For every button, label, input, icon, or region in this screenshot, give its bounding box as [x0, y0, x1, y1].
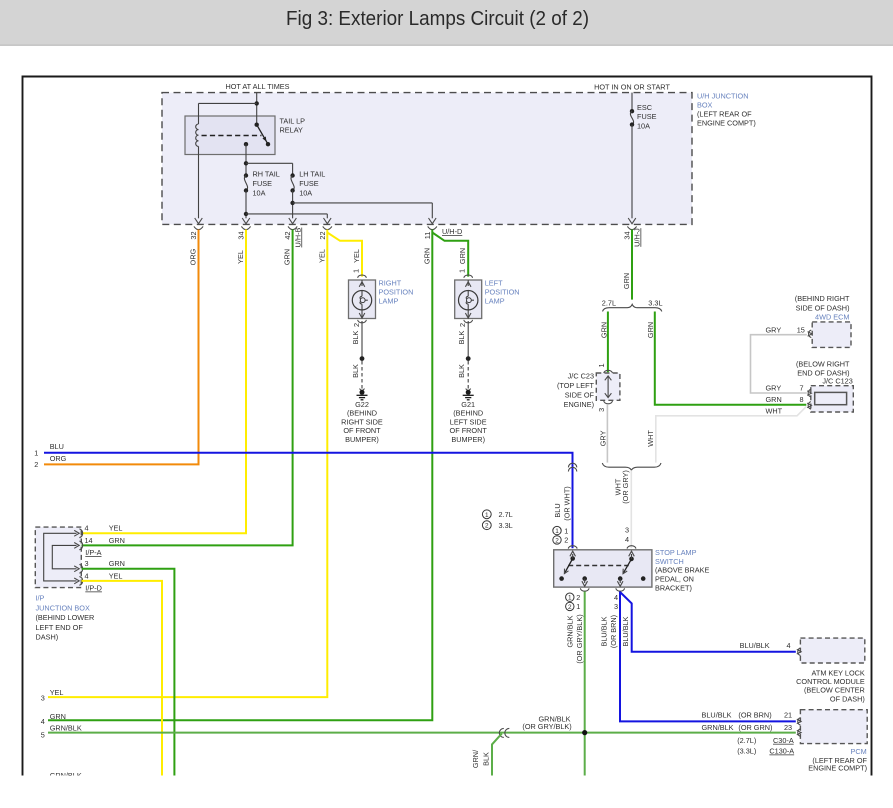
svg-text:ORG: ORG — [50, 454, 67, 463]
wire GRN 11: branch to left position lamp — [432, 233, 468, 277]
wire WHT (OR GRY) to stop lamp switch — [613, 470, 631, 548]
svg-text:4WD ECM: 4WD ECM — [815, 312, 849, 321]
pin 34 label — [237, 231, 246, 239]
svg-text:YEL: YEL — [109, 524, 123, 533]
svg-text:34: 34 — [237, 231, 246, 239]
svg-text:GRN: GRN — [109, 536, 125, 545]
svg-text:1: 1 — [576, 602, 580, 611]
wire BLK (dashed) to ground — [457, 361, 468, 389]
svg-text:SIDE OF: SIDE OF — [565, 390, 595, 399]
wire BLK from lamp — [351, 321, 362, 359]
svg-text:(OR WHT): (OR WHT) — [563, 486, 572, 520]
wire YEL 22: branch to right position lamp — [327, 233, 362, 277]
svg-text:ESC: ESC — [637, 103, 652, 112]
ATM key lock control module — [740, 638, 865, 703]
svg-text:2: 2 — [564, 536, 568, 545]
connector: exit arrow at dashed border x=292.6 — [288, 218, 297, 230]
svg-text:BUMPER): BUMPER) — [451, 435, 485, 444]
wire: relay output to fuse bus — [244, 144, 293, 175]
svg-text:3: 3 — [41, 694, 45, 703]
connector: C123 pin 8 — [766, 395, 812, 409]
wire GRN 11: main vertical down to row 4 — [48, 230, 432, 721]
pin 34 label — [623, 231, 632, 239]
net label I/P-D — [85, 584, 102, 593]
svg-text:U/H-J: U/H-J — [633, 228, 642, 247]
svg-text:3.3L: 3.3L — [648, 298, 662, 307]
svg-text:U/H-B: U/H-B — [293, 227, 302, 247]
svg-text:GRY: GRY — [599, 430, 608, 446]
svg-text:32: 32 — [189, 231, 198, 239]
svg-text:BLK: BLK — [481, 752, 490, 766]
svg-text:Fig 3: Exterior Lamps Circuit: Fig 3: Exterior Lamps Circuit (2 of 2) — [286, 7, 589, 30]
wire BLU/BLK (OR BRN) from switch to PCM 21 — [600, 592, 796, 722]
svg-text:(2.7L): (2.7L) — [737, 736, 756, 745]
connector: exit arrow at dashed border x=327.3 — [323, 218, 332, 230]
svg-text:GRN/: GRN/ — [471, 749, 480, 768]
U/H junction box (dashed) — [162, 93, 692, 225]
svg-text:HOT AT ALL TIMES: HOT AT ALL TIMES — [225, 82, 289, 91]
svg-text:BLK: BLK — [351, 330, 360, 344]
wire BLK (dashed) to ground — [351, 361, 362, 389]
fuse: ESC FUSE 10A — [630, 93, 657, 219]
svg-text:2: 2 — [485, 523, 489, 530]
svg-text:SIDE OF DASH): SIDE OF DASH) — [796, 303, 850, 312]
wire label GRN/BLK clipped at bottom — [50, 771, 82, 780]
pin 42 label — [283, 231, 292, 239]
svg-text:GRN: GRN — [766, 395, 782, 404]
svg-text:G21: G21 — [461, 400, 475, 409]
wire: RH fuse output and branch to pin 22 — [244, 191, 327, 219]
pin 2 label — [458, 323, 467, 327]
pin 22 label — [318, 231, 327, 239]
connector: ECM pin 15 — [766, 325, 812, 337]
fuse: LH TAIL FUSE 10A — [290, 170, 325, 198]
svg-text:1: 1 — [34, 449, 38, 458]
wire YEL row 3 labels — [41, 688, 64, 703]
net label U/H-D — [442, 227, 462, 236]
svg-text:BLK: BLK — [351, 364, 360, 378]
net label U/H-J — [633, 228, 642, 247]
I/P pin 14 (GRN) — [74, 536, 125, 550]
engine split brace 2.7L / 3.3L — [602, 298, 663, 311]
svg-text:8: 8 — [800, 395, 804, 404]
svg-text:LAMP: LAMP — [485, 297, 505, 306]
svg-text:LH TAIL: LH TAIL — [299, 170, 325, 179]
svg-text:(BEHIND: (BEHIND — [347, 409, 377, 418]
svg-text:(3.3L): (3.3L) — [737, 747, 756, 756]
net label U/H-B — [293, 227, 302, 247]
wire color label YEL — [317, 249, 326, 263]
I/P pin 3 (GRN) — [74, 559, 125, 573]
svg-text:(OR GRY/BLK): (OR GRY/BLK) — [522, 722, 571, 731]
svg-text:BLK: BLK — [457, 330, 466, 344]
connector: inline on BLU wire — [568, 463, 576, 471]
svg-text:2: 2 — [555, 537, 559, 544]
svg-text:LEFT: LEFT — [485, 279, 503, 288]
svg-text:U/H-D: U/H-D — [442, 227, 462, 236]
svg-text:GRN/BLK: GRN/BLK — [50, 771, 82, 780]
stop lamp switch STOP LAMP SWITCH — [554, 546, 710, 593]
svg-text:(OR GRY): (OR GRY) — [621, 470, 630, 504]
svg-text:21: 21 — [784, 711, 792, 720]
net label HOT AT ALL TIMES — [225, 82, 289, 91]
svg-text:1: 1 — [352, 269, 361, 273]
svg-text:GRN/BLK: GRN/BLK — [702, 723, 734, 732]
svg-text:3: 3 — [85, 559, 89, 568]
wire WHT from C123 pin 8 — [646, 407, 806, 463]
svg-text:GRN: GRN — [422, 248, 431, 264]
fuse: RH TAIL FUSE 10A — [244, 170, 280, 198]
svg-text:I/P: I/P — [36, 594, 45, 603]
svg-text:(OR BRN): (OR BRN) — [609, 615, 618, 648]
wire color label GRN — [283, 249, 292, 265]
svg-text:2.7L: 2.7L — [499, 510, 513, 519]
svg-text:BLU: BLU — [50, 442, 64, 451]
svg-text:ENGINE COMPT): ENGINE COMPT) — [697, 119, 756, 128]
wire color label ORG — [189, 248, 198, 265]
wire GRN 34 (ESC / U/H-J) down to engine split — [631, 230, 633, 300]
connector: exit arrow at dashed border x=632 — [627, 218, 636, 230]
wire GRN 2.7L branch to J/C C23 — [600, 312, 609, 373]
svg-text:C130-A: C130-A — [769, 747, 794, 756]
node: BLK splice — [360, 356, 365, 361]
svg-text:1: 1 — [564, 526, 568, 535]
lamp LEFT POSITION LAMP — [455, 275, 520, 323]
svg-text:LAMP: LAMP — [379, 297, 399, 306]
svg-text:GRY: GRY — [766, 383, 782, 392]
wire YEL 22: main vertical down to row 3 — [48, 230, 327, 698]
connector: exit arrow at dashed border x=198.5 — [194, 218, 203, 230]
wire ORG 32: down then left to row 2 — [44, 230, 199, 465]
svg-text:BOX: BOX — [697, 101, 713, 110]
wire: feed from HOT AT ALL TIMES into relay — [256, 93, 258, 125]
wire color label YEL — [236, 250, 245, 264]
relay coil — [196, 103, 199, 218]
U/H junction box name label — [697, 92, 756, 128]
pin 2 label — [352, 323, 361, 327]
svg-text:HOT IN ON OR START: HOT IN ON OR START — [594, 83, 670, 92]
wire color label GRN — [422, 248, 431, 264]
svg-text:BUMPER): BUMPER) — [345, 435, 379, 444]
svg-text:4: 4 — [85, 571, 89, 580]
svg-text:23: 23 — [784, 723, 792, 732]
svg-text:(BEHIND RIGHT: (BEHIND RIGHT — [795, 294, 850, 303]
svg-text:JUNCTION BOX: JUNCTION BOX — [36, 603, 90, 612]
relay mechanical link (dashed) — [202, 135, 262, 137]
svg-text:RIGHT SIDE: RIGHT SIDE — [341, 417, 383, 426]
svg-text:10A: 10A — [299, 189, 312, 198]
svg-text:YEL: YEL — [236, 250, 245, 264]
svg-text:YEL: YEL — [50, 688, 64, 697]
svg-text:(BEHIND LOWER: (BEHIND LOWER — [36, 613, 95, 622]
wire GRY: ECM 15 to C123 7 — [751, 335, 807, 393]
svg-text:7: 7 — [800, 383, 804, 392]
wire YEL from I/P pin 4 (I/P-D) down — [82, 581, 163, 776]
I/P junction box name — [36, 594, 95, 642]
connector: exit arrow at dashed border x=432.3 — [428, 218, 437, 230]
wire GRN/BLK stub from bottom — [471, 734, 502, 776]
svg-text:GRN: GRN — [50, 712, 66, 721]
svg-text:(OR GRY/BLK): (OR GRY/BLK) — [575, 614, 584, 663]
pin 1 label — [458, 269, 467, 273]
svg-text:J/C C23: J/C C23 — [568, 371, 594, 380]
connector: C123 pin 7 — [766, 383, 812, 397]
node: BLK splice — [466, 356, 471, 361]
svg-text:42: 42 — [283, 231, 292, 239]
svg-text:(ABOVE BRAKE: (ABOVE BRAKE — [655, 566, 709, 575]
wire color label GRN — [622, 273, 631, 289]
svg-text:POSITION: POSITION — [485, 288, 520, 297]
svg-text:1: 1 — [555, 528, 559, 535]
wire GRN/BLK from switch down — [566, 592, 585, 776]
I/P pin 4 (YEL) — [74, 524, 122, 538]
I/P junction box — [35, 527, 81, 588]
svg-text:2: 2 — [458, 323, 467, 327]
wire ORG row 2 label — [34, 454, 66, 469]
svg-text:BLU/BLK: BLU/BLK — [740, 641, 770, 650]
svg-text:2: 2 — [34, 460, 38, 469]
stop lamp switch pin labels top — [553, 526, 629, 545]
wire color label GRN — [458, 248, 467, 264]
svg-text:1: 1 — [458, 269, 467, 273]
svg-text:10A: 10A — [253, 189, 266, 198]
svg-text:GRY: GRY — [766, 325, 782, 334]
legend: engine variants — [482, 510, 512, 530]
svg-text:GRN: GRN — [458, 248, 467, 264]
svg-text:4: 4 — [614, 593, 618, 602]
svg-text:22: 22 — [318, 231, 327, 239]
pin 32 label — [189, 231, 198, 239]
svg-text:ORG: ORG — [189, 248, 198, 265]
svg-text:(BELOW CENTER: (BELOW CENTER — [804, 686, 865, 695]
svg-text:4: 4 — [625, 535, 629, 544]
I/P pin 4 (YEL) — [74, 571, 122, 585]
svg-text:BLU/BLK: BLU/BLK — [600, 616, 609, 646]
svg-text:YEL: YEL — [317, 249, 326, 263]
svg-text:10A: 10A — [637, 122, 650, 131]
svg-text:1: 1 — [568, 595, 572, 602]
svg-text:1: 1 — [485, 512, 489, 519]
svg-text:3: 3 — [614, 602, 618, 611]
svg-text:POSITION: POSITION — [379, 288, 414, 297]
svg-text:WHT: WHT — [646, 430, 655, 447]
svg-text:GRN: GRN — [109, 559, 125, 568]
J/C C123 — [796, 359, 853, 412]
wire labels GRN/BLK (OR GRY/BLK) mid row — [522, 715, 571, 731]
net label HOT IN ON OR START — [594, 83, 670, 92]
svg-text:4: 4 — [41, 717, 45, 726]
svg-text:(OR BRN): (OR BRN) — [738, 711, 771, 720]
svg-text:RIGHT: RIGHT — [379, 279, 402, 288]
svg-text:FUSE: FUSE — [299, 179, 319, 188]
node: GRN/BLK junction on row 5 — [582, 730, 587, 735]
svg-text:TAIL LP: TAIL LP — [280, 117, 306, 126]
svg-text:YEL: YEL — [109, 571, 123, 580]
svg-text:GRN/BLK: GRN/BLK — [50, 723, 82, 732]
title bar — [0, 0, 893, 46]
svg-text:U/H JUNCTION: U/H JUNCTION — [697, 92, 748, 101]
svg-text:GRN: GRN — [600, 322, 609, 338]
svg-text:BLU: BLU — [553, 503, 562, 517]
wire GRN row 4 labels — [41, 712, 66, 726]
svg-text:OF FRONT: OF FRONT — [450, 426, 488, 435]
svg-text:FUSE: FUSE — [637, 112, 657, 121]
wire: LH fuse output and branch to pin 11 — [290, 191, 432, 219]
merge brace GRY+WHT — [602, 463, 661, 470]
svg-text:WHT: WHT — [766, 407, 783, 416]
wire GRN 3.3L branch to J/C C123 pin 8 — [646, 312, 807, 405]
svg-text:1: 1 — [597, 363, 606, 367]
svg-text:C30-A: C30-A — [773, 736, 794, 745]
svg-text:PCM: PCM — [851, 747, 867, 756]
net label I/P-A — [85, 548, 101, 557]
svg-text:2: 2 — [568, 604, 572, 611]
svg-text:RELAY: RELAY — [280, 126, 304, 135]
wire YEL 34: down then left to I/P pin 4 — [82, 230, 247, 534]
pin 11 label — [423, 232, 432, 240]
svg-text:(OR GRN): (OR GRN) — [738, 723, 772, 732]
svg-text:(TOP LEFT: (TOP LEFT — [557, 381, 595, 390]
svg-text:3.3L: 3.3L — [499, 521, 513, 530]
svg-text:4: 4 — [787, 641, 791, 650]
svg-text:RH TAIL: RH TAIL — [253, 170, 280, 179]
svg-text:LEFT END OF: LEFT END OF — [36, 623, 84, 632]
wire GRN/BLK row 5 to PCM 23 — [41, 723, 796, 739]
svg-text:GRN: GRN — [283, 249, 292, 265]
svg-text:GRN: GRN — [622, 273, 631, 289]
svg-text:OF FRONT: OF FRONT — [343, 426, 381, 435]
svg-text:OF DASH): OF DASH) — [830, 695, 865, 704]
svg-text:(BEHIND: (BEHIND — [453, 409, 483, 418]
svg-text:BLU/BLK: BLU/BLK — [621, 616, 630, 646]
svg-text:PEDAL, ON: PEDAL, ON — [655, 575, 694, 584]
svg-text:4: 4 — [85, 524, 89, 533]
J/C C23 — [557, 363, 620, 411]
wire: relay coil feed branch — [199, 102, 257, 104]
wire BLU/BLK branch to ATM key lock module — [620, 592, 796, 652]
svg-text:ENGINE COMPT): ENGINE COMPT) — [808, 764, 867, 773]
relay switch arm — [244, 123, 270, 147]
svg-text:2: 2 — [352, 323, 361, 327]
svg-text:(BELOW RIGHT: (BELOW RIGHT — [796, 359, 850, 368]
svg-text:34: 34 — [623, 231, 632, 239]
svg-text:CONTROL MODULE: CONTROL MODULE — [796, 677, 865, 686]
wire GRN from I/P pin 3 down — [82, 569, 175, 776]
connector: inline on GRN/BLK row 5 — [499, 728, 509, 737]
svg-text:(LEFT REAR OF: (LEFT REAR OF — [697, 110, 752, 119]
svg-text:14: 14 — [85, 536, 93, 545]
svg-text:BLU/BLK: BLU/BLK — [702, 711, 732, 720]
wire BLU row 1 — [34, 442, 572, 548]
relay K1 TAIL LP RELAY body — [185, 116, 305, 155]
stop lamp switch pin labels bottom — [566, 593, 618, 611]
svg-text:J/C C123: J/C C123 — [822, 377, 852, 386]
wire BLK from lamp — [457, 321, 468, 359]
svg-text:11: 11 — [423, 232, 432, 240]
node: relay feed junction — [255, 101, 259, 105]
svg-text:LEFT SIDE: LEFT SIDE — [450, 417, 487, 426]
wire GRN 42: down then left to I/P pin 14 — [82, 230, 293, 546]
svg-text:I/P-A: I/P-A — [85, 548, 101, 557]
svg-text:3: 3 — [597, 408, 606, 412]
svg-text:BLK: BLK — [457, 364, 466, 378]
svg-text:YEL: YEL — [352, 249, 361, 263]
wire color label YEL — [352, 249, 361, 263]
pin 1 label — [352, 269, 361, 273]
PCM — [702, 710, 868, 773]
lamp RIGHT POSITION LAMP — [349, 275, 414, 323]
svg-text:STOP LAMP: STOP LAMP — [655, 548, 697, 557]
wire BLU (OR WHT) labels — [553, 486, 572, 520]
svg-text:2.7L: 2.7L — [602, 298, 616, 307]
svg-text:BRACKET): BRACKET) — [655, 584, 692, 593]
svg-text:FUSE: FUSE — [253, 179, 273, 188]
svg-text:2: 2 — [576, 593, 580, 602]
svg-text:5: 5 — [41, 730, 45, 739]
svg-text:GRN/BLK: GRN/BLK — [566, 615, 575, 647]
4WD ECM — [795, 294, 851, 347]
svg-text:G22: G22 — [355, 400, 369, 409]
ground G22 — [341, 389, 383, 444]
svg-text:3: 3 — [625, 526, 629, 535]
wire GRY from J/C C23 pin 3 — [599, 404, 608, 462]
svg-text:GRN: GRN — [646, 322, 655, 338]
svg-text:ENGINE): ENGINE) — [564, 400, 594, 409]
connector: exit arrow at dashed border x=246 — [241, 218, 250, 230]
svg-text:I/P-D: I/P-D — [85, 584, 102, 593]
svg-text:DASH): DASH) — [36, 633, 59, 642]
svg-text:15: 15 — [797, 325, 805, 334]
ground G21 — [450, 389, 488, 444]
